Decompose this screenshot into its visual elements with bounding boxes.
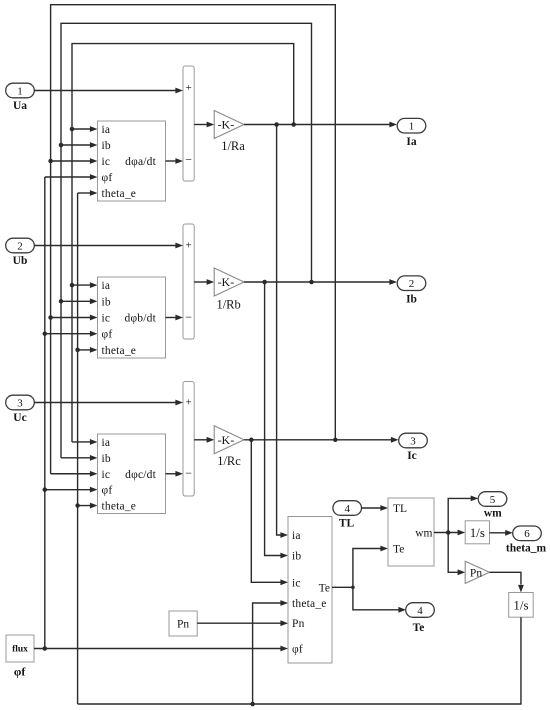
node Ic feedback tap: [333, 438, 338, 443]
svg-text:1/s: 1/s: [470, 525, 485, 540]
svg-text:ic: ic: [102, 469, 111, 481]
svg-text:-K-: -K-: [218, 275, 235, 289]
svg-text:Pn: Pn: [177, 619, 189, 631]
svg-text:Uc: Uc: [13, 412, 26, 424]
svg-text:Ib: Ib: [406, 294, 417, 306]
svg-text:Pn: Pn: [470, 567, 482, 579]
svg-text:Pn: Pn: [292, 618, 305, 630]
svg-text:Te: Te: [393, 544, 404, 556]
wire Pn gain to integrator: [490, 572, 524, 592]
svg-text:Ub: Ub: [13, 255, 28, 267]
svg-text:5: 5: [490, 494, 496, 506]
node ia tap B: [70, 282, 98, 288]
node Ia to torque tap: [274, 122, 279, 127]
wire Ic feedback (top loop): [51, 5, 336, 477]
svg-text:3: 3: [17, 397, 23, 409]
wire dphic/dt to sum C minus: [166, 471, 184, 477]
input port 2 Ub: [6, 238, 35, 267]
output port 2 Ib: [397, 276, 426, 306]
svg-text:dφc/dt: dφc/dt: [125, 469, 156, 481]
svg-text:wm: wm: [415, 528, 432, 540]
svg-text:ia: ia: [102, 437, 111, 449]
wire dphia/dt to sum A minus: [166, 158, 184, 164]
svg-text:2: 2: [409, 278, 415, 290]
wire theta_e bottom loop: [78, 617, 521, 704]
svg-text:3: 3: [410, 435, 416, 447]
wire sum C to gain: [194, 437, 214, 443]
wire theta_e rail: [78, 190, 98, 704]
wire sum B to gain: [194, 279, 214, 285]
svg-text:6: 6: [524, 528, 530, 540]
svg-text:1/Ra: 1/Ra: [221, 139, 245, 153]
wire 1/s to theta_m: [490, 530, 513, 536]
wire gain to Ic: [244, 437, 399, 443]
wire Ia to torque ia: [277, 125, 288, 538]
svg-text:φf: φf: [292, 643, 303, 655]
svg-text:1: 1: [409, 121, 415, 133]
wire dphib/dt to sum B minus: [166, 315, 184, 321]
input port 1 Ua: [6, 83, 35, 112]
svg-text:+: +: [185, 240, 191, 252]
node phi-f tap C: [43, 487, 98, 493]
sum block C: [183, 382, 194, 497]
subsystem dphib/dt: [98, 277, 166, 358]
node ic tap B: [48, 315, 97, 321]
svg-text:ib: ib: [102, 453, 111, 465]
svg-text:ia: ia: [292, 530, 301, 542]
svg-text:theta_e: theta_e: [102, 188, 137, 200]
svg-text:ib: ib: [102, 296, 111, 308]
node theta_e bottom tap: [250, 702, 255, 707]
gain 1/Rb: [214, 268, 244, 312]
wire sum A to gain: [194, 122, 214, 128]
svg-text:theta_e: theta_e: [102, 501, 137, 513]
output port 5 wm: [478, 492, 507, 520]
output port 6 theta_m: [506, 526, 547, 555]
wire Uc to sum C: [35, 400, 184, 406]
integrator 1/s (theta_e): [509, 593, 534, 618]
svg-text:Ia: Ia: [406, 136, 416, 148]
svg-text:wm: wm: [484, 508, 502, 520]
sum block B: [183, 224, 194, 339]
wire TL to TL-Te block: [361, 505, 388, 511]
node Ib feedback tap: [309, 280, 314, 285]
svg-text:+: +: [185, 82, 191, 94]
wire Ub to sum B: [35, 243, 184, 249]
svg-text:flux: flux: [12, 645, 28, 655]
svg-text:4: 4: [344, 503, 350, 515]
node Ic to torque tap: [249, 438, 254, 443]
wire Ic to torque ic: [251, 440, 288, 585]
svg-text:1/s: 1/s: [513, 597, 528, 612]
svg-text:theta_e: theta_e: [292, 598, 327, 610]
node ib tap A: [59, 142, 98, 148]
output port 1 Ia: [397, 118, 426, 148]
output port 3 Ic: [399, 433, 428, 462]
integrator 1/s (wm): [465, 521, 489, 544]
svg-text:ia: ia: [102, 124, 111, 136]
wire theta_e to torque: [253, 600, 288, 704]
wire gain to Ib: [244, 279, 397, 285]
svg-text:ic: ic: [292, 577, 301, 589]
input port 4 TL: [333, 501, 362, 530]
node flux phif tap: [43, 646, 48, 651]
wire Te to TL-Te block: [353, 546, 388, 588]
svg-text:−: −: [185, 466, 192, 480]
wire Ia feedback (top loop): [72, 44, 294, 445]
node Ia feedback tap: [291, 122, 296, 127]
svg-text:φf: φf: [102, 172, 113, 184]
wire Pn to torque: [197, 620, 288, 626]
wire wm output: [434, 530, 465, 536]
gain 1/Ra: [214, 111, 245, 154]
subsystem dphic/dt: [98, 434, 166, 514]
wire phi-f rail: [45, 174, 98, 648]
svg-text:theta_e: theta_e: [102, 345, 137, 357]
wire gain to Ia: [244, 122, 397, 128]
svg-text:TL: TL: [339, 518, 355, 530]
svg-text:1: 1: [17, 85, 23, 97]
svg-text:φf: φf: [102, 329, 113, 341]
svg-text:TL: TL: [393, 503, 407, 515]
wire Ib feedback (top loop): [61, 23, 312, 460]
wire flux to torque phif: [34, 646, 288, 652]
constant Pn: [169, 611, 197, 636]
svg-text:Ua: Ua: [13, 100, 27, 112]
svg-text:1/Rc: 1/Rc: [217, 454, 241, 468]
svg-text:ic: ic: [102, 313, 111, 325]
node Ib to torque tap: [262, 280, 267, 285]
output port 4 Te: [406, 603, 435, 634]
svg-text:−: −: [185, 153, 192, 167]
svg-text:−: −: [185, 310, 192, 324]
svg-text:1/Rb: 1/Rb: [216, 298, 240, 312]
wire Ib to torque ib: [265, 282, 288, 558]
svg-text:φf: φf: [102, 485, 113, 497]
wire wm to port 5: [448, 496, 478, 533]
svg-text:-K-: -K-: [218, 433, 235, 447]
subsystem dphia/dt: [98, 121, 166, 201]
svg-text:theta_m: theta_m: [506, 543, 547, 555]
node ic tap A: [48, 158, 97, 164]
svg-text:dφb/dt: dφb/dt: [125, 313, 157, 325]
node theta_e tap C: [75, 503, 97, 509]
node theta_e tap B: [75, 347, 97, 353]
svg-text:Te: Te: [319, 582, 330, 594]
svg-text:ic: ic: [102, 156, 111, 168]
svg-text:ia: ia: [102, 280, 111, 292]
sum block A: [183, 66, 194, 181]
node phi-f tap B: [43, 331, 98, 337]
svg-text:Ic: Ic: [407, 450, 417, 462]
gain Pn: [465, 561, 489, 583]
svg-text:+: +: [185, 397, 191, 409]
svg-text:dφa/dt: dφa/dt: [125, 156, 156, 168]
constant flux: [6, 635, 34, 679]
svg-text:Te: Te: [413, 622, 425, 634]
node ib tap B: [59, 298, 98, 304]
subsystem Te (torque): [288, 517, 332, 664]
node ia tap A: [70, 126, 98, 132]
svg-text:ib: ib: [292, 551, 301, 563]
wire wm to Pn gain: [448, 533, 465, 576]
svg-text:2: 2: [17, 240, 23, 252]
wire Te to output port: [353, 587, 406, 612]
svg-text:ib: ib: [102, 140, 111, 152]
svg-text:-K-: -K-: [218, 118, 235, 132]
wire Ua to sum A: [35, 88, 184, 94]
gain 1/Rc: [214, 426, 244, 468]
svg-text:4: 4: [417, 605, 423, 617]
wire Te output: [332, 586, 355, 590]
subsystem wm (mechanical): [388, 498, 434, 566]
input port 3 Uc: [6, 395, 35, 424]
svg-text:φf: φf: [14, 665, 26, 679]
